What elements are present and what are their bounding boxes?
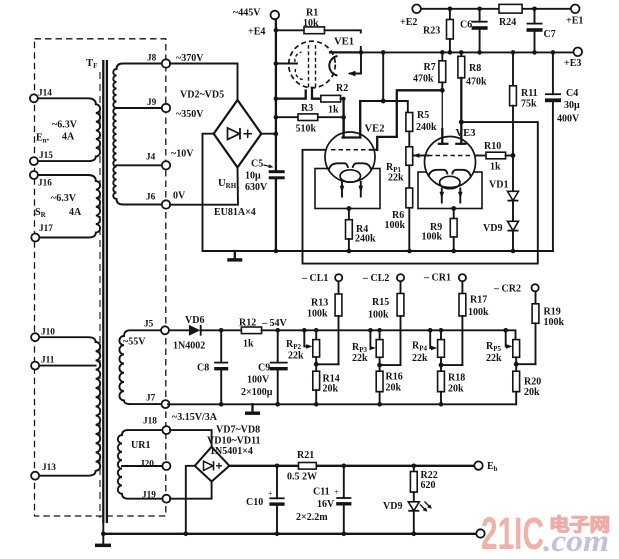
svg-text:J6: J6 (146, 193, 156, 203)
wire Rp5 tap elbow (516, 363, 535, 365)
winding J8-J9-J4-J6 HV secondary (113, 64, 170, 205)
svg-text:20k: 20k (448, 384, 464, 395)
svg-text:20k: 20k (323, 384, 339, 395)
svg-text:EU81A×4: EU81A×4 (214, 207, 256, 218)
wire VE2 anode node vertical (342, 99, 344, 138)
svg-text:VD7~VD8: VD7~VD8 (216, 425, 260, 436)
transformer shield (dashed) (99, 72, 101, 518)
svg-text:30μ: 30μ (564, 100, 580, 111)
svg-text:R2: R2 (336, 83, 348, 94)
VE1 cathode arrow (350, 52, 361, 73)
winding J10-J11-J13 primary (38, 337, 100, 476)
tube VE1 (dashed envelope) (289, 41, 336, 88)
VE2 grid (dashed) (331, 149, 369, 151)
svg-text:20k: 20k (524, 387, 540, 398)
capacitor C9 (277, 330, 279, 404)
diode symbol inside UR1 (204, 461, 214, 470)
svg-text:2×100μ: 2×100μ (241, 387, 273, 398)
svg-text:R21: R21 (297, 450, 314, 461)
ground symbol (bias) (251, 404, 253, 411)
terminal +E3 (574, 48, 583, 57)
terminal +E1 (571, 5, 580, 14)
wire VE1 grid bottom lead (312, 88, 321, 99)
svg-text:J15: J15 (39, 151, 53, 161)
resistor R12 (221, 329, 241, 331)
capacitor C6 (479, 9, 481, 53)
svg-text:VD6: VD6 (185, 315, 204, 326)
VE1 cathode curve (329, 56, 337, 76)
potentiometer Rp1 (406, 147, 413, 166)
svg-text:+E2: +E2 (400, 17, 417, 28)
svg-text:J4: J4 (146, 153, 156, 163)
resistor R7 (441, 52, 443, 60)
svg-text:R8: R8 (469, 63, 481, 74)
svg-text:100k: 100k (385, 220, 406, 231)
terminal J10 (31, 333, 39, 341)
node dots on HT vertical (274, 28, 279, 33)
wire VE2 anode feed row (360, 52, 408, 137)
wire VE1 output lead (330, 51, 361, 53)
svg-text:~3.15V/3A: ~3.15V/3A (172, 412, 218, 423)
VE3 cathode hooks (429, 170, 448, 176)
resistor R9 (450, 219, 457, 238)
svg-text:2×2.2m: 2×2.2m (296, 512, 328, 523)
resistor R23 (449, 9, 451, 20)
terminal J13 (31, 472, 39, 480)
capacitor C11 (343, 466, 345, 534)
core earth ground (102, 523, 104, 544)
svg-text:1N4002: 1N4002 (173, 341, 205, 352)
svg-text:21IC: 21IC (481, 508, 544, 559)
wire Rp3 tap elbow (380, 364, 401, 366)
svg-text:.com: .com (543, 523, 609, 558)
wire bridge left to ground rail (203, 134, 214, 251)
resistor R6 (408, 165, 410, 188)
svg-text:J8: J8 (147, 54, 157, 64)
svg-text:R10: R10 (484, 141, 501, 152)
terminal -CR2 (532, 284, 539, 291)
transformer core (102, 60, 104, 523)
svg-text:C6: C6 (460, 20, 472, 31)
LED VD9 (408, 502, 419, 511)
wire bias bus -54V (278, 330, 516, 339)
terminal -CR1 (459, 274, 466, 281)
VE2 cathode hooks (329, 163, 348, 169)
svg-text:+E1: +E1 (566, 16, 583, 27)
tap J9 wire (117, 107, 167, 109)
tap J11 wire (38, 365, 96, 367)
svg-text:R18: R18 (448, 373, 465, 384)
capacitor C4 (552, 52, 554, 251)
svg-text:J18: J18 (143, 417, 157, 427)
resistor R22 (413, 466, 415, 472)
svg-text:470k: 470k (466, 77, 487, 88)
svg-text:C8: C8 (197, 363, 209, 374)
svg-text:100k: 100k (468, 307, 489, 318)
svg-text:R19: R19 (544, 307, 561, 318)
svg-text:75k: 75k (521, 99, 537, 110)
winding J16-J17 (37, 175, 100, 238)
svg-text:J5: J5 (144, 320, 154, 330)
terminal LV return (476, 529, 484, 537)
svg-text:C11: C11 (313, 487, 330, 498)
svg-text:J9: J9 (147, 98, 157, 108)
svg-text:620: 620 (421, 480, 436, 491)
resistor R5 (406, 113, 413, 132)
VE3 heater leads with arrows (442, 189, 461, 203)
svg-text:~10V: ~10V (171, 149, 194, 160)
resistor R21 (299, 463, 317, 470)
svg-text:100k: 100k (422, 232, 443, 243)
svg-text:630V: 630V (245, 182, 268, 193)
svg-text:J17: J17 (39, 224, 53, 234)
terminal J6 (162, 200, 170, 208)
svg-text:+: + (268, 489, 273, 498)
diode VD6 (169, 329, 189, 331)
svg-text:VD1: VD1 (489, 180, 508, 191)
terminal J20 (162, 462, 170, 470)
svg-text:100V: 100V (247, 375, 270, 386)
VE2 plate (342, 136, 362, 138)
wire bridge right to HT (261, 133, 276, 135)
terminal J19 (162, 495, 170, 503)
VE3 plates (438, 143, 449, 145)
svg-text:470k: 470k (413, 74, 434, 85)
svg-text:C10: C10 (246, 497, 263, 508)
svg-text:22k: 22k (288, 351, 304, 362)
svg-text:VE1: VE1 (334, 37, 354, 48)
wire VE3 anode loop to VE2 grid (303, 122, 538, 264)
wire bridge bottom to J6 (170, 168, 238, 205)
svg-text:– CR1: – CR1 (423, 273, 451, 284)
wire UR1 left to rail (186, 466, 195, 534)
svg-text:~6.3V: ~6.3V (51, 193, 77, 204)
svg-text:+: + (334, 487, 339, 497)
svg-text:0.5 2W: 0.5 2W (287, 472, 317, 483)
potentiometer Rp4 (440, 330, 442, 339)
resistor R8 (460, 52, 462, 56)
resistor R20 (515, 364, 517, 371)
LED arrows (420, 505, 426, 511)
svg-text:VE3: VE3 (456, 128, 476, 139)
svg-text:R17: R17 (470, 295, 487, 306)
terminal -CL2 (397, 274, 404, 281)
svg-text:J20: J20 (140, 460, 154, 470)
wire main HT vertical (275, 19, 277, 251)
wire bias bottom rail (168, 403, 516, 405)
svg-text:J14: J14 (38, 89, 52, 99)
resistor R2 (321, 95, 341, 102)
svg-text:100k: 100k (307, 309, 328, 320)
VE2 heater ellipse (340, 170, 360, 182)
svg-text:400V: 400V (557, 114, 580, 125)
svg-text:240k: 240k (355, 234, 376, 245)
svg-text:C7: C7 (544, 29, 556, 40)
resistor R4 (346, 220, 353, 239)
svg-text:22k: 22k (352, 353, 368, 364)
resistor R24 (499, 4, 522, 13)
tube VE2 envelope (325, 132, 375, 182)
svg-text:~6.3V: ~6.3V (52, 120, 78, 131)
svg-text:– CR2: – CR2 (493, 284, 521, 295)
wire R7 to VE3 left plate (441, 90, 443, 144)
wire J18 to bridge UR1 top (170, 430, 212, 447)
terminal J5 (161, 326, 169, 334)
zener diode VD9 (upper) (508, 221, 519, 230)
wire HT bottom rail (203, 250, 553, 252)
svg-text:J10: J10 (41, 328, 55, 338)
diode symbol inside bridge (228, 128, 240, 140)
terminal +E2 (412, 5, 421, 14)
svg-text:– CL2: – CL2 (362, 273, 389, 284)
svg-text:– CL1: – CL1 (301, 273, 328, 284)
wire VE1 grid feed (276, 63, 297, 65)
terminal J16 (30, 171, 38, 179)
capacitor C7 (534, 9, 536, 53)
resistor R18 (440, 365, 442, 371)
tube VE3 heater box (418, 172, 482, 209)
winding J18-J20-J19 3.15V (118, 430, 162, 499)
svg-text:J16: J16 (38, 179, 52, 189)
resistor R1 (276, 29, 304, 31)
svg-text:R20: R20 (524, 377, 541, 388)
svg-text:+E3: +E3 (564, 58, 581, 69)
resistor R17 (461, 281, 463, 293)
svg-text:22k: 22k (486, 353, 502, 364)
svg-text:R23: R23 (423, 26, 440, 37)
svg-text:16V: 16V (317, 499, 335, 510)
svg-text:4A: 4A (69, 207, 82, 218)
wire E2-E1 top rail (421, 8, 571, 10)
svg-text:100k: 100k (544, 317, 565, 328)
svg-text:C9: C9 (258, 363, 270, 374)
winding J5-J7 55V (119, 330, 161, 404)
terminal ~445V (271, 11, 280, 20)
terminal J18 (162, 426, 170, 434)
capacitor C5 (269, 170, 285, 173)
svg-text:UR1: UR1 (131, 440, 150, 451)
bridge rectifier UR1 (195, 447, 230, 482)
svg-text:10μ: 10μ (245, 171, 261, 182)
VE1 inner dashed arcs (295, 52, 302, 62)
svg-text:1k: 1k (243, 339, 254, 350)
winding J14-J15 (37, 98, 100, 161)
resistor R19 (535, 291, 537, 303)
terminal J15 (30, 157, 38, 165)
svg-text:VD9: VD9 (483, 223, 502, 234)
VE2 heater leads with arrows (342, 182, 361, 197)
terminal J14 (30, 94, 38, 102)
svg-text:4A: 4A (62, 132, 75, 143)
zener diode VD1 (512, 156, 514, 252)
resistor R11 (512, 52, 514, 85)
terminal -CL1 (335, 274, 342, 281)
svg-text:J19: J19 (142, 491, 156, 501)
resistor R13 (338, 281, 340, 294)
tap J4 wire (117, 164, 167, 166)
svg-text:1k: 1k (328, 105, 339, 116)
resistor R10 (476, 155, 487, 157)
wire LV positive line (229, 465, 474, 467)
svg-text:22k: 22k (388, 173, 404, 184)
ground symbol (HT filter) (234, 251, 236, 258)
svg-text:J11: J11 (41, 356, 55, 366)
terminal J17 (31, 234, 39, 242)
resistor R3 (276, 116, 298, 118)
svg-text:J7: J7 (146, 394, 156, 404)
resistor R14 (315, 364, 317, 371)
resistor R15 (400, 281, 402, 293)
svg-text:R16: R16 (386, 372, 403, 383)
svg-text:240k: 240k (416, 122, 437, 133)
svg-text:VD10~VD11: VD10~VD11 (207, 436, 261, 447)
resistor R16 (379, 365, 381, 371)
svg-text:R3: R3 (301, 103, 313, 114)
svg-text:R5: R5 (417, 110, 429, 121)
svg-text:1N5401×4: 1N5401×4 (210, 446, 253, 457)
tap J20 wire (122, 465, 162, 467)
wire LV bottom rail (103, 533, 476, 535)
VE1 grids (dashed) (309, 45, 316, 88)
svg-text:R12: R12 (239, 318, 256, 329)
svg-text:R24: R24 (499, 17, 516, 28)
svg-text:0V: 0V (173, 191, 186, 202)
svg-text:10k: 10k (303, 18, 319, 29)
svg-text:VD9: VD9 (383, 501, 402, 512)
bridge rectifier VD2~VD5 (214, 100, 262, 168)
VE3 heater ellipse (440, 176, 460, 188)
svg-text:+E4: +E4 (248, 27, 265, 38)
wire J19 to bridge UR1 bottom (170, 482, 212, 499)
wire J8 to bridge top (170, 64, 238, 101)
tube VE2 heater box (315, 169, 380, 209)
wire VE3 cathode to R9 (451, 206, 456, 211)
svg-text:~445V: ~445V (233, 8, 261, 19)
svg-text:R11: R11 (521, 88, 538, 99)
wire Rp4 tap elbow (441, 364, 462, 366)
wire VE2 cathode to R4 (347, 206, 352, 211)
terminal Eb (474, 461, 482, 469)
potentiometer Rp3 (379, 330, 381, 339)
wire Rp2 tap elbow (316, 363, 338, 365)
VE3 grid (dashed) (428, 155, 472, 157)
svg-text:VE2: VE2 (365, 124, 385, 135)
svg-text:– 54V: – 54V (261, 318, 288, 329)
svg-text:R15: R15 (372, 297, 389, 308)
terminal J4 (162, 161, 170, 169)
tube VE3 envelope (425, 137, 476, 188)
svg-text:~55V: ~55V (123, 337, 146, 348)
svg-text:~350V: ~350V (176, 109, 204, 120)
potentiometer Rp2 (315, 330, 317, 339)
svg-text:R13: R13 (311, 298, 328, 309)
svg-text:VD2~VD5: VD2~VD5 (180, 90, 224, 101)
svg-text:C4: C4 (566, 88, 578, 99)
wire regulator output line (361, 51, 574, 53)
svg-text:R7: R7 (424, 62, 436, 73)
svg-text:510k: 510k (296, 124, 317, 135)
svg-text:20k: 20k (386, 383, 402, 394)
svg-text:100k: 100k (368, 310, 389, 321)
terminal J8 (162, 59, 170, 67)
capacitor C10 (276, 466, 278, 534)
svg-text:1k: 1k (490, 162, 501, 173)
potentiometer Rp5 (513, 340, 520, 358)
terminal J9 (162, 104, 170, 112)
terminal J7 (162, 400, 170, 408)
wire R7 node to VE2 grid jog (377, 90, 442, 150)
svg-text:~370V: ~370V (176, 53, 204, 64)
capacitor C8 (220, 330, 222, 404)
terminal J11 (31, 362, 39, 370)
wire VE1 lower-left stub (276, 91, 306, 99)
svg-text:J13: J13 (42, 463, 56, 473)
svg-text:22k: 22k (412, 353, 428, 364)
transformer dashed boundary box (35, 39, 166, 516)
svg-text:C5: C5 (251, 159, 263, 170)
